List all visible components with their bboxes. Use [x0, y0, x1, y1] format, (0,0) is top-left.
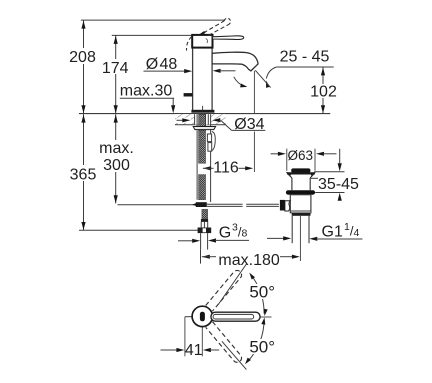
svg-text:max.180: max.180 — [218, 252, 279, 269]
svg-text:Ø63: Ø63 — [288, 148, 314, 163]
svg-text:174: 174 — [102, 60, 129, 77]
svg-text:25 - 45: 25 - 45 — [280, 48, 330, 65]
svg-text:365: 365 — [70, 166, 97, 183]
svg-text:300: 300 — [103, 157, 130, 174]
svg-text:max.30: max.30 — [120, 83, 173, 100]
svg-text:41: 41 — [185, 342, 203, 359]
svg-text:50°: 50° — [249, 338, 275, 357]
svg-text:50°: 50° — [249, 283, 275, 302]
svg-text:35-45: 35-45 — [318, 176, 359, 193]
svg-text:116: 116 — [213, 160, 239, 177]
svg-text:208: 208 — [69, 49, 96, 66]
svg-text:max.: max. — [99, 140, 134, 157]
svg-text:102: 102 — [310, 84, 337, 101]
